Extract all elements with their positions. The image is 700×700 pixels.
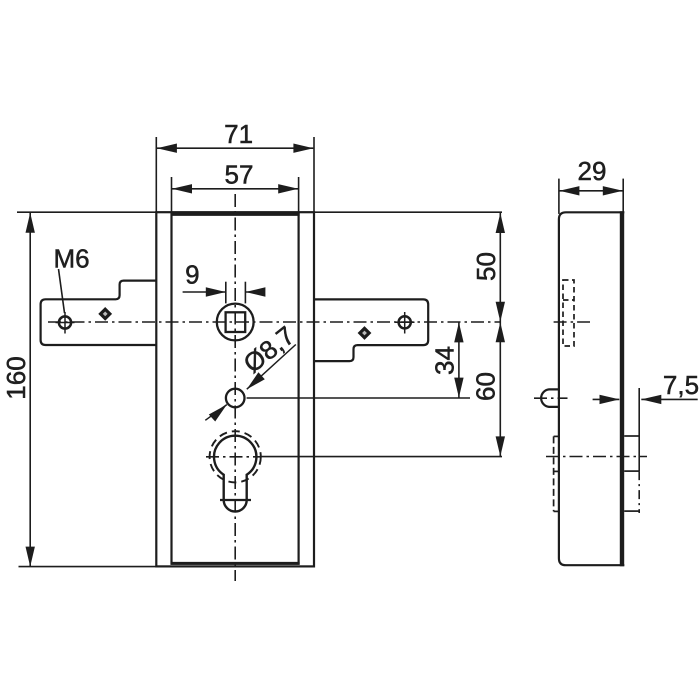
svg-text:50: 50	[471, 252, 501, 281]
horizontal centerline (follower axis)	[48, 321, 500, 323]
dim D8.7 leader	[247, 345, 296, 390]
svg-text:60: 60	[471, 372, 501, 401]
M6 hole	[59, 316, 71, 328]
side body outline	[559, 212, 624, 565]
keyhole dashed circle	[210, 431, 261, 482]
left mounting plate	[41, 281, 157, 345]
dim 160 extension lines	[17, 211, 156, 213]
spindle pin bump	[541, 389, 559, 407]
follower square 9mm	[226, 312, 246, 332]
faceplate outline	[156, 212, 314, 566]
hole D8.7	[226, 389, 245, 408]
euro cylinder keyhole	[214, 436, 256, 512]
dim 9 line + arrows	[183, 291, 226, 293]
dim 7.5	[593, 398, 620, 400]
vertical centerline	[234, 194, 236, 581]
lock box outline	[172, 214, 299, 563]
keyhole arc-center tick	[220, 499, 251, 501]
follower axis on side view	[554, 321, 590, 323]
dim 57 line	[172, 188, 298, 190]
M6 leader line	[59, 269, 65, 313]
dim 9 extension lines	[225, 282, 227, 304]
cylinder protrusion front (left)	[553, 436, 555, 511]
follower slot hidden	[563, 280, 574, 346]
svg-text:160: 160	[1, 356, 31, 399]
svg-text:57: 57	[225, 160, 254, 190]
follower circle	[217, 304, 254, 341]
dim 50/60 line	[499, 213, 501, 456]
svg-text:M6: M6	[53, 244, 89, 274]
keyhole axis extension to 60 dim	[260, 456, 502, 458]
svg-text:71: 71	[224, 119, 253, 149]
right mounting plate	[314, 299, 428, 361]
svg-text:7,5: 7,5	[663, 370, 699, 400]
svg-text:34: 34	[430, 346, 460, 375]
M6 hole crosshair	[56, 322, 75, 324]
svg-text:9: 9	[185, 260, 199, 290]
dim 71 line	[157, 147, 314, 149]
svg-text:29: 29	[578, 156, 607, 186]
right plate crosshair hole	[399, 316, 411, 328]
dim 57 extension lines	[171, 177, 173, 213]
cylinder axis on side view	[546, 456, 647, 458]
cylinder protrusion back (right)	[624, 435, 639, 437]
dim 71 extension lines	[155, 137, 157, 212]
hole axis extension to 34 dim	[247, 397, 470, 399]
pin axis	[534, 397, 568, 399]
left plate diamond hole	[99, 308, 111, 320]
dim 29 extension lines	[558, 179, 560, 214]
dim 29 line	[559, 190, 622, 192]
right plate diamond hole	[358, 327, 370, 339]
side body thick right edge	[620, 211, 624, 566]
lock box thick bottom edge	[171, 562, 300, 565]
keyhole horizontal centerline	[206, 456, 260, 458]
dim 34 line	[458, 322, 460, 397]
top right extension line	[314, 211, 502, 213]
lock box thick top edge	[171, 213, 300, 216]
dim 160 line	[29, 213, 31, 567]
